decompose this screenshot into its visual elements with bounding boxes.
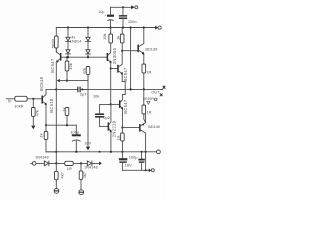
terminal OUT X bbox=[163, 86, 166, 89]
svg-text:560R: 560R bbox=[51, 39, 56, 48]
capacitor C5 2n7 bbox=[95, 104, 111, 126]
diode D4 1N914 bbox=[86, 50, 91, 57]
node bias-D2 bbox=[67, 56, 69, 58]
svg-text:16V: 16V bbox=[84, 141, 91, 146]
wire Q4e down bbox=[110, 69, 112, 105]
svg-text:BD140: BD140 bbox=[148, 124, 161, 129]
svg-text:BC547: BC547 bbox=[123, 99, 128, 114]
svg-text:10kR: 10kR bbox=[14, 103, 23, 108]
svg-text:BC518: BC518 bbox=[39, 76, 44, 91]
wire output node bbox=[46, 88, 163, 90]
wire +V rail bbox=[56, 27, 155, 29]
svg-text:100n: 100n bbox=[128, 19, 137, 24]
wire rail to output bbox=[130, 28, 132, 89]
resistor R4 47k upper bbox=[86, 67, 90, 147]
wire ground bus bbox=[46, 151, 157, 153]
wire y125 bootstrap bbox=[46, 124, 76, 126]
terminal circle right bbox=[157, 150, 161, 154]
wire Q2 collector long bbox=[55, 64, 57, 163]
capacitor C3 feedback bbox=[78, 87, 80, 93]
svg-text:47k: 47k bbox=[81, 68, 86, 74]
node Q4emitter-Q5base bbox=[110, 67, 112, 69]
resistor R15 4k7 right bbox=[79, 163, 83, 189]
node rail-C1 bbox=[109, 26, 111, 28]
svg-text:10k: 10k bbox=[68, 63, 73, 69]
terminal arrow top bbox=[131, 5, 138, 9]
wire Q7 collector to bottom bbox=[145, 152, 147, 171]
capacitor C1 10u electrolytic bbox=[107, 7, 114, 27]
arrow end diode row bbox=[99, 162, 102, 166]
diode D1 1N914 bbox=[66, 28, 71, 50]
resistor R10 47k to ground bbox=[32, 99, 36, 125]
diode D3 1N914 bbox=[86, 28, 91, 50]
node bias-R2 bbox=[66, 56, 68, 58]
wire bias node bbox=[61, 56, 106, 58]
node rail-C2 bbox=[122, 26, 124, 28]
resistor R8 emitter bottom bbox=[142, 89, 146, 122]
node bus-Q8e bbox=[110, 151, 112, 153]
svg-text:1k: 1k bbox=[116, 36, 121, 40]
resistor R9 input series bbox=[15, 96, 42, 101]
transistor Q2 BC547 bias bbox=[56, 48, 61, 64]
speaker circle bbox=[154, 98, 157, 101]
wire Q5 emitter jog to Q3 collector bbox=[122, 81, 125, 100]
svg-text:2µ2: 2µ2 bbox=[103, 115, 110, 120]
node row-R14 bbox=[80, 162, 82, 164]
svg-text:8R16R: 8R16R bbox=[143, 97, 154, 101]
resistor R2 10k bbox=[65, 57, 69, 80]
resistor R5 10k collector bbox=[109, 28, 113, 44]
node row-Q2col bbox=[55, 162, 57, 164]
terminal arrow bottom right bbox=[149, 168, 155, 172]
svg-text:1k: 1k bbox=[39, 133, 44, 137]
svg-text:BC547: BC547 bbox=[123, 67, 128, 82]
terminal circle bottom left bbox=[32, 162, 36, 166]
transistor Q1 BC518 bbox=[42, 89, 47, 125]
diode D5 1N4148 bbox=[44, 161, 49, 166]
node bus-R12 bbox=[121, 151, 123, 153]
svg-text:1R: 1R bbox=[67, 166, 72, 171]
node rail-D1 bbox=[67, 26, 69, 28]
node rail-D3 bbox=[87, 26, 89, 28]
node rail-Q6c bbox=[143, 26, 145, 28]
wire Q7 base bbox=[122, 127, 139, 129]
svg-text:1k: 1k bbox=[61, 107, 66, 111]
ground terminal left bbox=[54, 189, 59, 194]
resistor R1 560R bbox=[55, 28, 59, 52]
terminal +V right bbox=[155, 26, 161, 30]
svg-text:16V: 16V bbox=[125, 162, 132, 167]
terminal X2 bbox=[160, 94, 163, 97]
wire Q3 base bbox=[111, 103, 119, 105]
wire top decoupling bbox=[111, 6, 132, 8]
svg-text:1N4148: 1N4148 bbox=[35, 155, 49, 160]
resistor R7 emitter top bbox=[142, 64, 146, 89]
node bus-C4 bbox=[75, 151, 77, 153]
svg-text:+: + bbox=[104, 13, 106, 17]
svg-text:1N914: 1N914 bbox=[70, 39, 82, 44]
svg-text:1N4148: 1N4148 bbox=[84, 164, 98, 169]
node out-R7 bbox=[143, 88, 145, 90]
ground arrow R10 bbox=[31, 126, 35, 130]
node bus-Q2col bbox=[55, 151, 57, 153]
wire emitter feedback arm bbox=[58, 80, 67, 82]
transistor Q8 2N2219 bbox=[100, 104, 112, 151]
wire Q5 base bbox=[111, 68, 118, 70]
svg-text:2N2219: 2N2219 bbox=[112, 120, 117, 137]
resistor R3 1k lower bbox=[65, 108, 69, 126]
svg-text:10k: 10k bbox=[93, 93, 99, 98]
node top cap junction bbox=[122, 6, 124, 8]
node R6-Q5c bbox=[121, 50, 123, 52]
capacitor C4 100u bbox=[72, 125, 81, 152]
svg-text:4k7: 4k7 bbox=[59, 172, 64, 178]
ground terminal right bbox=[79, 190, 84, 195]
arrow into Q2 emitter line bbox=[57, 79, 60, 82]
transistor Q6 BD139 bbox=[137, 28, 144, 65]
node bias-D4 bbox=[87, 56, 89, 58]
node Q1e-wire125 bbox=[45, 124, 47, 126]
resistor R13 1R horizontal bbox=[65, 161, 73, 165]
svg-text:1R: 1R bbox=[146, 70, 151, 75]
arrow below OUT bbox=[147, 101, 150, 104]
node out-Q2col bbox=[55, 88, 57, 90]
node wire125-R3 bbox=[66, 124, 68, 126]
node bus-C7 bbox=[141, 151, 143, 153]
wire Q6 base from node bbox=[122, 50, 137, 52]
transistor Q5 BC547 bbox=[117, 51, 123, 82]
svg-text:OUT: OUT bbox=[151, 89, 160, 94]
node Q4e-wire104 bbox=[110, 103, 112, 105]
node out-C3 bbox=[81, 88, 83, 90]
resistor R12 bbox=[121, 128, 125, 152]
node input-R10 bbox=[32, 98, 34, 100]
diode D6 1N4148 bbox=[87, 161, 92, 166]
svg-text:100µ: 100µ bbox=[70, 129, 79, 134]
capacitor C2 100n bbox=[119, 7, 127, 27]
resistor R11 1k bbox=[44, 125, 56, 152]
node rail-bootstrap bbox=[130, 26, 132, 28]
node gnd2-Q7c bbox=[145, 169, 147, 171]
wire stub terminal bbox=[31, 162, 33, 164]
capacitor C7 100u right bbox=[138, 152, 144, 171]
resistor R6 1k bbox=[120, 28, 124, 51]
wire arm to R4 column bbox=[67, 67, 88, 81]
svg-text:4k7: 4k7 bbox=[82, 172, 87, 178]
svg-text:10k: 10k bbox=[102, 33, 107, 39]
transistor Q7 BD140 bbox=[139, 114, 146, 152]
wire diode row bbox=[36, 162, 99, 164]
node Q3e-R12 bbox=[121, 127, 123, 129]
svg-text:BD139: BD139 bbox=[145, 47, 157, 52]
svg-text:BC547: BC547 bbox=[50, 58, 55, 73]
node out-bootstrap bbox=[130, 88, 132, 90]
ground arrow R4 bottom bbox=[86, 147, 90, 151]
diode D2 1N914 bbox=[66, 50, 71, 57]
transistor Q3 BC547 lower bbox=[119, 100, 123, 128]
node bus-C5col bbox=[99, 151, 101, 153]
svg-text:1R: 1R bbox=[147, 109, 152, 114]
transistor Q4 driver bbox=[107, 43, 112, 69]
node bus-Q7c bbox=[145, 151, 147, 153]
svg-text:2N3055: 2N3055 bbox=[112, 47, 117, 64]
node R2-arm bbox=[66, 80, 68, 82]
svg-text:47k: 47k bbox=[34, 110, 39, 116]
capacitor C6 1000u output bbox=[119, 152, 149, 171]
svg-text:2µ7: 2µ7 bbox=[80, 92, 87, 97]
svg-text:100µ: 100µ bbox=[129, 154, 138, 159]
wire input bbox=[7, 98, 15, 100]
resistor R14 4k7 left bbox=[55, 163, 59, 188]
svg-text:BC518: BC518 bbox=[49, 98, 54, 113]
